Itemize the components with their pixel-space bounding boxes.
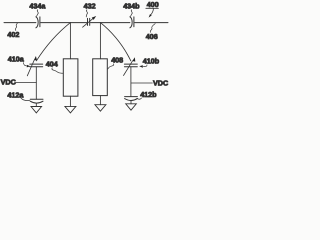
svg-text:404: 404 bbox=[46, 59, 58, 68]
varactor 410a plates bbox=[30, 64, 43, 67]
svg-text:406: 406 bbox=[146, 32, 158, 41]
arrow leader of 400 bbox=[151, 9, 154, 15]
leader for 410a bbox=[23, 63, 27, 66]
capacitor C 434a bbox=[36, 17, 40, 28]
wire main line middle-right segment through node B bbox=[91, 22, 130, 24]
leader for 412a bbox=[21, 98, 30, 101]
ground below 412a bbox=[31, 107, 42, 113]
wire below capacitor 412b bbox=[130, 101, 132, 104]
svg-text:410a: 410a bbox=[8, 55, 25, 64]
wire main line right segment bbox=[135, 22, 168, 24]
node B junction wire down bbox=[99, 23, 101, 59]
leader for 406 bbox=[150, 24, 155, 33]
leader for 434b bbox=[131, 10, 133, 17]
svg-text:412a: 412a bbox=[7, 90, 24, 99]
wire from varactor 410a down bbox=[35, 67, 37, 99]
wire VDC tap left bbox=[15, 82, 37, 84]
ground below 408 bbox=[95, 105, 106, 112]
variable capacitor 432 plates bbox=[88, 18, 90, 25]
resistor R 404 body bbox=[63, 59, 78, 96]
svg-text:402: 402 bbox=[7, 30, 19, 39]
capacitor C 434b bbox=[130, 17, 134, 28]
svg-text:432: 432 bbox=[84, 1, 96, 10]
leader for 434a bbox=[37, 10, 39, 17]
capacitor C 412b bbox=[125, 97, 138, 101]
varactor 410a arrow bbox=[27, 60, 34, 76]
capacitor C 412a bbox=[30, 99, 43, 103]
variable capacitor 432 arrow bbox=[83, 19, 93, 28]
ground below 404 bbox=[65, 106, 76, 113]
svg-text:434b: 434b bbox=[123, 1, 140, 10]
wire VDC tap right bbox=[131, 82, 152, 84]
leader for 402 bbox=[15, 23, 17, 30]
ground below 412b bbox=[126, 104, 137, 110]
leader for 408 bbox=[108, 64, 114, 69]
wire diagonal from node A to varactor 410a bbox=[36, 23, 70, 61]
node A junction wire down bbox=[69, 23, 71, 59]
leader for 412b bbox=[137, 98, 142, 99]
wire below resistor 404 bbox=[69, 96, 71, 106]
leader for 432 bbox=[86, 10, 87, 17]
svg-text:VDC: VDC bbox=[1, 78, 16, 87]
svg-text:408: 408 bbox=[111, 56, 123, 65]
wire from varactor 410b down bbox=[130, 67, 132, 97]
wire diagonal from node B to varactor 410b bbox=[100, 23, 130, 61]
wire below capacitor 412a bbox=[35, 103, 37, 106]
wire main line middle-left segment through node A bbox=[41, 22, 87, 24]
varactor 410b arrow bbox=[124, 61, 133, 76]
wire below resistor 408 bbox=[99, 96, 101, 105]
underline of 400 bbox=[146, 7, 159, 9]
varactor 410b plates bbox=[124, 64, 137, 67]
leader for 410b bbox=[143, 65, 147, 67]
leader for 404 bbox=[52, 68, 63, 73]
svg-text:412b: 412b bbox=[140, 90, 157, 99]
svg-text:434a: 434a bbox=[29, 1, 46, 10]
svg-text:400: 400 bbox=[147, 0, 159, 9]
svg-text:410b: 410b bbox=[143, 57, 160, 66]
resistor R 408 body bbox=[93, 59, 108, 96]
svg-text:VDC: VDC bbox=[153, 78, 168, 87]
wire main transmission line left segment bbox=[4, 22, 36, 24]
